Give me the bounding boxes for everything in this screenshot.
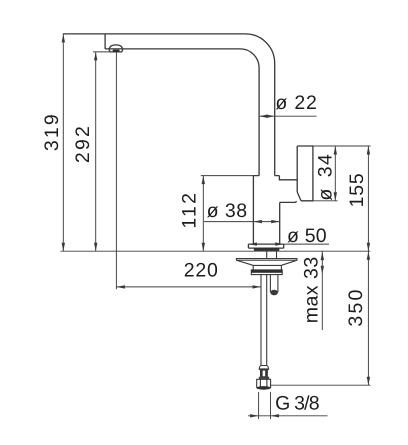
handle diagonal (297, 192, 301, 201)
ribbed collar (261, 370, 268, 377)
spout pipe bottom line and inner bend (105, 49, 259, 176)
svg-text:350: 350 (345, 287, 367, 326)
arrows o50 (248, 242, 257, 245)
dim 112 ext (201, 175, 254, 177)
hose ferrule (259, 366, 268, 370)
aerator nozzle dome (109, 45, 123, 50)
dim 112 line (202, 176, 204, 252)
washer legs (253, 265, 281, 270)
svg-text:ø 34: ø 34 (314, 153, 336, 201)
dim G38 line (248, 415, 328, 417)
arrows o34 (334, 146, 337, 155)
arrows 292 (94, 52, 97, 61)
spout pipe end cap (104, 34, 106, 49)
svg-text:ø 22: ø 22 (275, 92, 317, 114)
handle cap rectangle (297, 146, 313, 201)
body left wall (252, 176, 254, 245)
arrowheads (62, 34, 370, 418)
dim 220 line (116, 286, 261, 288)
flexible hose (261, 275, 267, 366)
ferrule dark band (259, 368, 268, 370)
dim o22 line (259, 115, 316, 117)
dim o34 exts (313, 146, 371, 201)
aerator nozzle base (109, 50, 123, 52)
stud tube below nut (270, 275, 278, 293)
svg-text:319: 319 (41, 112, 63, 151)
counter reference line (61, 250, 371, 252)
svg-text:G 3/8: G 3/8 (275, 393, 319, 415)
dim 292 line (95, 52, 97, 251)
arrows 319 (62, 34, 65, 43)
arrows 350 (367, 251, 370, 260)
spout pipe top and right bend (63, 34, 275, 176)
stud tube rounded dark bottom (270, 290, 278, 296)
dim 319 line (62, 34, 64, 251)
arrows 155 (367, 146, 370, 155)
svg-text:112: 112 (179, 191, 201, 229)
arrows 220 (116, 285, 125, 288)
dim 220 ext from nozzle (115, 52, 117, 289)
mounting nut dark band (251, 270, 282, 273)
arrows G38 (250, 414, 259, 417)
dim 350 bottom ext (271, 384, 371, 386)
mounting nut outline (251, 270, 282, 275)
aerator dark slot (113, 50, 120, 52)
fitting shoulder (259, 377, 269, 380)
arrows o38 (253, 220, 262, 223)
arrows max33 (321, 252, 324, 261)
base flange (248, 244, 283, 248)
body top surface (253, 175, 279, 177)
dim G38 exts (259, 392, 271, 419)
body right wall (279, 202, 281, 244)
arrows 112 (202, 176, 205, 185)
dim o34 line (334, 146, 336, 201)
dim 292 ext (93, 51, 110, 53)
svg-text:155: 155 (346, 172, 368, 207)
arrows o22 (259, 115, 268, 118)
svg-text:220: 220 (184, 259, 219, 281)
dim max33 line (321, 251, 323, 330)
svg-text:max 33: max 33 (301, 256, 323, 323)
base gasket dark strip (254, 248, 279, 251)
escutcheon tapered washer (236, 259, 297, 266)
threaded stud through counter (267, 251, 277, 258)
G3/8 nut (257, 379, 271, 387)
svg-text:ø 50: ø 50 (287, 225, 327, 247)
boss underside (280, 201, 297, 202)
dim o38 line (204, 221, 280, 223)
dim 155 and 350 shared line (367, 146, 369, 385)
body right step to handle boss (279, 176, 297, 180)
svg-text:292: 292 (72, 124, 94, 163)
dim o50 tail (284, 243, 329, 245)
svg-text:ø 38: ø 38 (207, 200, 248, 222)
nut bottom ellipse (257, 386, 271, 390)
